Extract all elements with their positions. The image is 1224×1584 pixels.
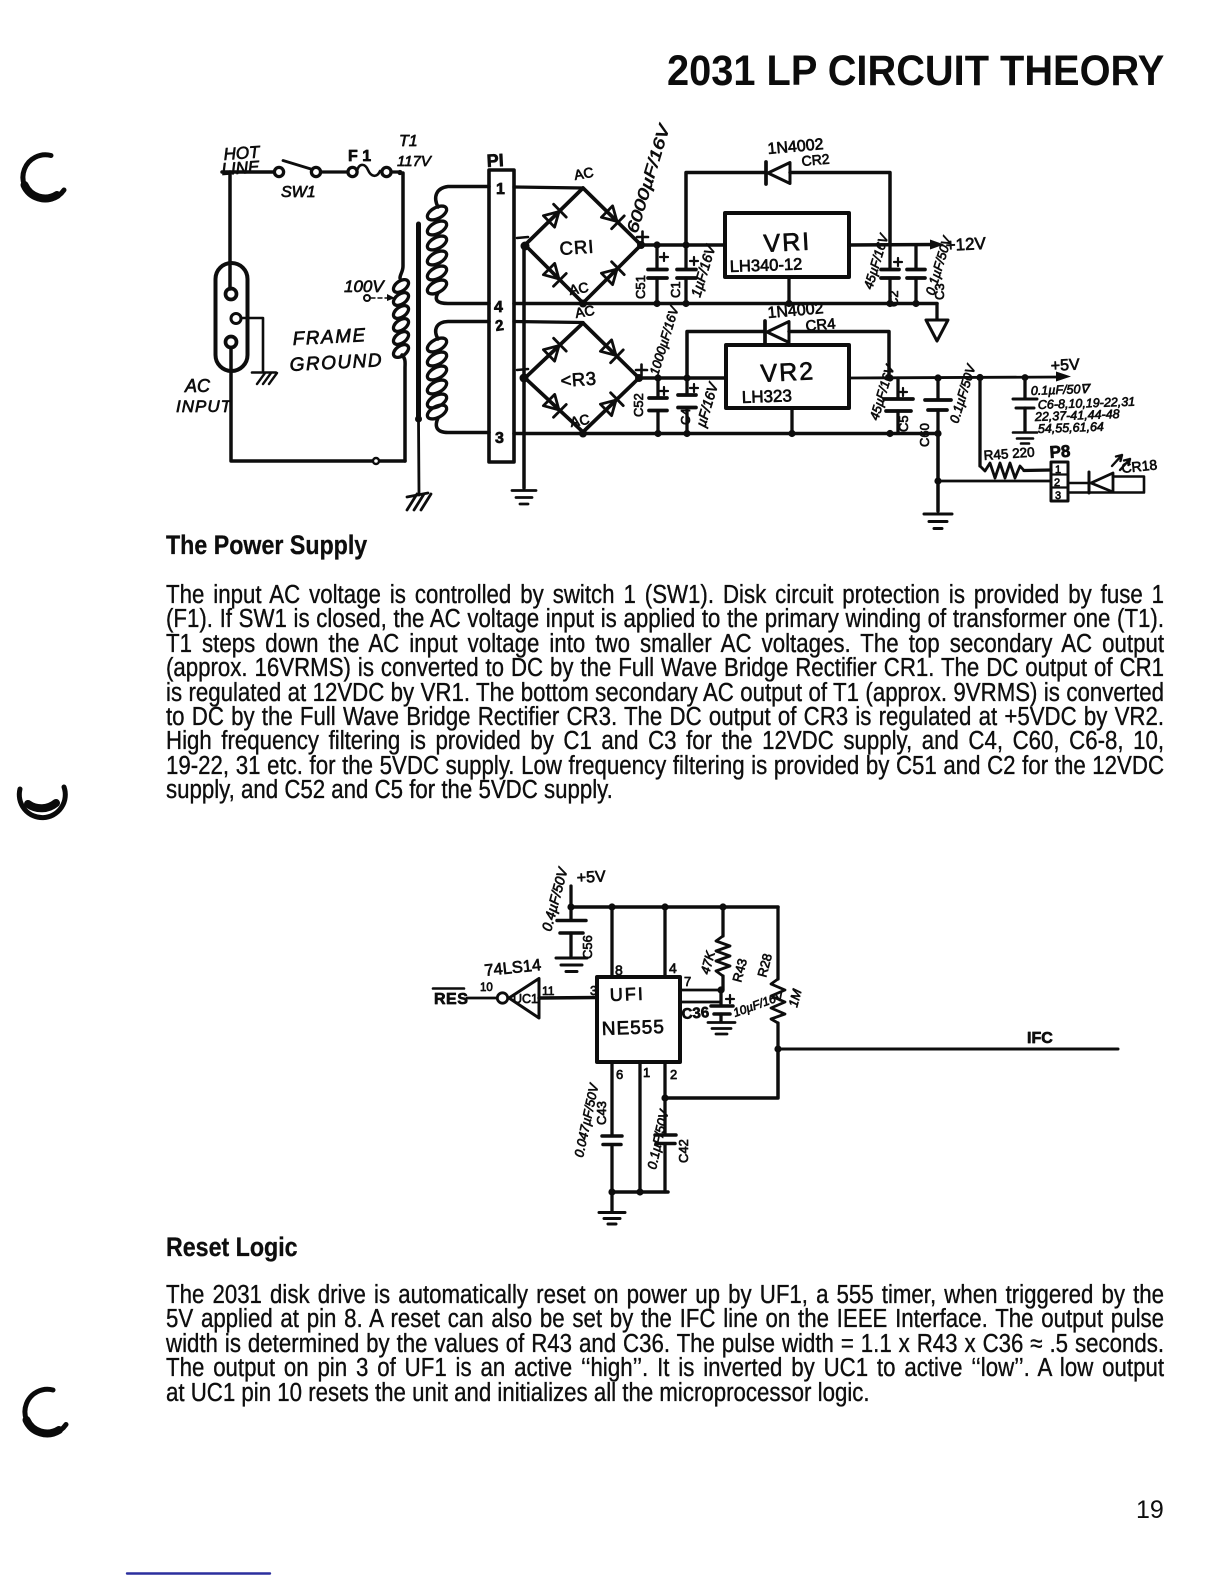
resistor R45 xyxy=(980,378,1051,479)
ground chassis frame xyxy=(252,373,277,385)
svg-text:GROUND: GROUND xyxy=(289,350,383,376)
svg-text:11: 11 xyxy=(542,984,555,998)
inverter UC1 xyxy=(497,979,539,1019)
svg-text:3: 3 xyxy=(590,983,597,998)
svg-text:6000µF/16V: 6000µF/16V xyxy=(625,121,674,235)
ground below P1 xyxy=(512,491,536,505)
wire VR2 output rail xyxy=(849,377,1062,378)
svg-text:4: 4 xyxy=(669,960,677,976)
wire pin2 drop xyxy=(663,1062,666,1134)
wire pin6 stub xyxy=(680,1001,721,1004)
svg-text:1: 1 xyxy=(643,1065,650,1080)
svg-text:T1: T1 xyxy=(399,133,418,150)
svg-text:C42: C42 xyxy=(676,1139,691,1163)
svg-text:C56: C56 xyxy=(580,935,595,959)
node 5V output arrow xyxy=(1056,372,1071,382)
svg-text:F 1: F 1 xyxy=(348,148,371,165)
wire F1 to transformer primary xyxy=(391,170,403,278)
regulator VR1 xyxy=(725,213,849,277)
svg-text:SW1: SW1 xyxy=(281,184,316,201)
node dots bottom rail xyxy=(608,1188,643,1195)
resistor R28 xyxy=(771,907,785,1049)
wire top secondary leads to P1 xyxy=(436,187,489,304)
switch SW1 xyxy=(274,161,320,177)
svg-text:2: 2 xyxy=(670,1067,677,1082)
AC input connector xyxy=(216,263,248,371)
label FRAME GROUND xyxy=(289,325,383,376)
svg-text:UFI: UFI xyxy=(609,984,645,1005)
svg-text:CR4: CR4 xyxy=(805,315,836,335)
svg-text:10: 10 xyxy=(480,982,493,994)
svg-text:C4: C4 xyxy=(678,408,693,425)
node open terminal on bottom wire xyxy=(373,458,379,464)
svg-text:C2: C2 xyxy=(886,290,901,307)
node 12V output arrow xyxy=(930,240,944,250)
svg-text:C60: C60 xyxy=(917,423,932,447)
svg-text:100V: 100V xyxy=(344,277,385,296)
svg-text:IFC: IFC xyxy=(1027,1030,1053,1047)
svg-text:AC: AC xyxy=(568,279,590,298)
capacitor C60 xyxy=(925,378,951,433)
wire bottom return to AC connector xyxy=(231,348,405,461)
resistor R43 xyxy=(716,907,730,990)
svg-text:NE555: NE555 xyxy=(601,1017,665,1040)
power supply paragraph xyxy=(166,583,1164,803)
svg-text:VR2: VR2 xyxy=(760,357,816,388)
wire reset bottom rail xyxy=(611,1190,668,1194)
svg-text:VRI: VRI xyxy=(763,228,812,258)
wire reset top rail xyxy=(571,905,778,909)
svg-text:+5V: +5V xyxy=(1050,356,1080,375)
svg-text:AC: AC xyxy=(569,411,591,430)
ground C56 xyxy=(556,958,587,972)
transformer T1 primary winding xyxy=(391,277,411,360)
capacitor C56 xyxy=(557,907,586,956)
wire bottom secondary leads to P1 xyxy=(436,322,489,433)
capacitor C43 xyxy=(602,1136,622,1192)
svg-text:R28: R28 xyxy=(754,952,775,979)
wire hot line to SW1 xyxy=(222,170,274,174)
node CR1 negative junction xyxy=(521,242,530,251)
wire UC1 to UF1 pin3 xyxy=(539,996,597,1000)
capacitor C42 xyxy=(655,1135,676,1192)
node 100V tap xyxy=(364,294,395,301)
svg-text:C51: C51 xyxy=(633,275,648,299)
svg-text:<R3: <R3 xyxy=(560,368,597,391)
diode CR2 protection loop xyxy=(686,162,890,245)
value 0.1uF/50V bank note xyxy=(1031,382,1136,436)
connector P8 xyxy=(1051,462,1068,502)
label plus CR3 xyxy=(636,365,647,376)
svg-text:C36: C36 xyxy=(681,1004,710,1023)
capacitor C51 xyxy=(648,245,668,303)
svg-text:LINE: LINE xyxy=(221,157,261,179)
svg-text:54,55,61,64: 54,55,61,64 xyxy=(1038,420,1105,436)
wire SW1 to F1 xyxy=(321,170,349,173)
wire 5V ground drop xyxy=(936,434,940,512)
ground reset section xyxy=(599,1213,625,1225)
wire VR1 output rail xyxy=(849,243,938,247)
label minus CR1 xyxy=(517,237,528,238)
wire ground stem reset xyxy=(610,1192,613,1211)
node pin2 loop junction xyxy=(661,1094,668,1101)
svg-text:LH323: LH323 xyxy=(741,386,792,407)
wire negative rail to ground xyxy=(522,246,526,488)
ground triangle 12V xyxy=(926,320,948,341)
svg-text:2: 2 xyxy=(494,317,505,335)
svg-text:CR2: CR2 xyxy=(801,151,831,169)
section heading: Reset Logic xyxy=(166,1234,298,1261)
svg-text:AC: AC xyxy=(573,164,595,183)
node dots on reset rail xyxy=(567,903,726,910)
svg-text:45µF/16V: 45µF/16V xyxy=(861,231,892,291)
capacitor C2 xyxy=(881,245,902,303)
svg-text:PI: PI xyxy=(486,150,504,171)
wire pin7 stub xyxy=(680,989,723,992)
svg-text:LH340-12: LH340-12 xyxy=(730,255,803,276)
wire frame ground xyxy=(241,318,263,371)
svg-text:3: 3 xyxy=(1055,490,1061,502)
wire 12V rail end to triangle ground xyxy=(935,304,938,320)
wire P1 pin1 to CR1 xyxy=(514,187,583,188)
wire 12V positive rail xyxy=(641,243,725,247)
wire P1 pin2 to CR3 xyxy=(514,322,583,323)
wire ground to P8 pin2 xyxy=(938,480,1051,483)
wire primary bottom lead xyxy=(402,355,405,461)
capacitor C1 xyxy=(677,245,698,303)
wire left vertical from hot line down to AC connector xyxy=(228,172,232,289)
capacitor C52 xyxy=(649,378,668,433)
wire VR2 ground pin xyxy=(790,408,793,433)
svg-text:0.1µF/50V: 0.1µF/50V xyxy=(644,1107,671,1170)
svg-text:INPUT: INPUT xyxy=(176,397,233,416)
svg-text:CRI: CRI xyxy=(559,236,595,259)
svg-text:FRAME: FRAME xyxy=(292,325,367,350)
decorative blue rule bottom left xyxy=(127,1572,270,1574)
svg-text:RES: RES xyxy=(434,991,468,1008)
LED CR18 xyxy=(1068,455,1144,493)
rectifier CR1 bridge xyxy=(525,188,641,303)
svg-text:R43: R43 xyxy=(729,957,750,984)
svg-text:C52: C52 xyxy=(631,393,646,417)
svg-text:1: 1 xyxy=(496,181,505,198)
capacitor C36 xyxy=(711,990,734,1021)
svg-text:C1: C1 xyxy=(668,281,683,298)
svg-text:0.4µF/50V: 0.4µF/50V xyxy=(538,864,571,932)
svg-text:C5: C5 xyxy=(896,415,911,432)
regulator VR2 xyxy=(726,345,849,408)
wire RES to UC1 xyxy=(467,997,497,1000)
svg-text:117V: 117V xyxy=(397,153,433,170)
page title xyxy=(667,50,1164,93)
wire pin4 riser xyxy=(663,907,666,977)
timer UF1 xyxy=(597,977,680,1062)
wire pin1 drop xyxy=(638,1062,641,1192)
svg-text:6: 6 xyxy=(616,1067,623,1082)
svg-text:4: 4 xyxy=(494,299,503,316)
reset logic paragraph xyxy=(166,1283,1164,1405)
wire 5V ground rail (pin3 line) xyxy=(514,432,938,436)
node R28 to IFC junction xyxy=(774,1045,781,1052)
svg-text:R45 220: R45 220 xyxy=(983,444,1035,463)
svg-text:74LS14: 74LS14 xyxy=(484,956,542,980)
connector P1 xyxy=(489,170,514,462)
wire 5V positive rail xyxy=(639,376,726,380)
wire +5V stub xyxy=(569,886,572,907)
svg-text:AC: AC xyxy=(184,376,211,396)
label RES with overline xyxy=(433,989,468,1009)
transformer T1 secondary bottom winding xyxy=(425,335,449,422)
wire VR1 ground pin xyxy=(787,277,790,303)
capacitor C5 xyxy=(884,378,913,433)
label minus CR3 xyxy=(517,369,528,370)
svg-text:CR18: CR18 xyxy=(1121,456,1158,476)
scan crescent mark top left xyxy=(23,155,64,200)
svg-text:7: 7 xyxy=(684,974,691,989)
svg-text:P8: P8 xyxy=(1049,442,1071,462)
capacitor C4 xyxy=(678,378,698,433)
scan crescent mark middle left xyxy=(19,787,65,818)
ground chassis under transformer xyxy=(407,493,431,510)
node HOT LINE label xyxy=(221,142,262,179)
scan crescent mark bottom left xyxy=(25,1389,66,1434)
capacitor C3 xyxy=(907,245,925,303)
section heading: The Power Supply xyxy=(166,532,367,559)
page number xyxy=(1136,1496,1164,1525)
rectifier CR3 bridge xyxy=(525,323,639,432)
node pin7 junction xyxy=(717,986,724,993)
svg-text:1M: 1M xyxy=(785,987,804,1008)
node junction dots 12V rail xyxy=(579,241,920,308)
svg-text:µF/16V: µF/16V xyxy=(693,379,722,429)
diode CR4 protection loop xyxy=(687,321,889,378)
ground C36 xyxy=(708,1023,735,1035)
svg-text:45µF/16V: 45µF/16V xyxy=(867,362,898,422)
svg-text:1: 1 xyxy=(1055,464,1061,476)
node junction dots 5V rail xyxy=(579,374,1028,485)
transformer T1 secondary top winding xyxy=(425,203,449,297)
label plus CR1 xyxy=(637,232,648,243)
wire IFC line xyxy=(778,1048,1118,1051)
node CR3 negative junction xyxy=(520,374,529,383)
fuse F1 xyxy=(348,165,391,177)
wire pin8 riser xyxy=(610,907,613,977)
svg-text:+5V: +5V xyxy=(576,868,606,887)
wire pin2 feedback loop xyxy=(665,1049,778,1098)
ground 5V section xyxy=(924,514,952,529)
svg-text:2: 2 xyxy=(1054,477,1060,489)
wire core to chassis ground xyxy=(417,419,420,495)
capacitor C6 bypass bank xyxy=(1013,378,1037,444)
label AC INPUT xyxy=(176,376,233,416)
transformer T1 core xyxy=(416,224,421,418)
svg-text:3: 3 xyxy=(495,430,504,447)
svg-text:1000µF/16V: 1000µF/16V xyxy=(647,303,683,377)
svg-text:0.1µF/50V: 0.1µF/50V xyxy=(947,362,979,425)
wire pin6 drop xyxy=(610,1062,613,1135)
node core junction xyxy=(415,416,422,423)
wire 12V ground rail (pin4 line) xyxy=(514,302,937,306)
svg-text:UC1: UC1 xyxy=(513,992,538,1006)
